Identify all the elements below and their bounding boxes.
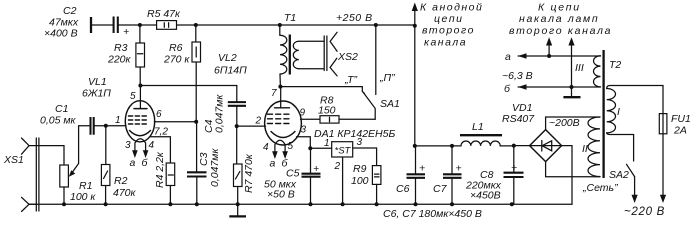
connector XS1 bbox=[22, 138, 39, 212]
node: DA1 pin2 ground bbox=[341, 202, 345, 206]
svg-text:I: I bbox=[617, 106, 620, 118]
svg-text:C6, C7 180мк×450 В: C6, C7 180мк×450 В bbox=[383, 208, 482, 220]
svg-text:2: 2 bbox=[255, 116, 262, 127]
wire: SA1 T-contact from anode node bbox=[280, 87, 364, 94]
capacitor C1 bbox=[91, 117, 94, 135]
transformer T1 core bbox=[289, 35, 291, 75]
transformer T2 winding III bbox=[594, 56, 601, 87]
svg-text:C1: C1 bbox=[55, 103, 68, 115]
transformer T2 core bbox=[602, 50, 604, 178]
wire: +250V top rail bbox=[92, 24, 415, 26]
arrow: filament a to 2nd channel bbox=[546, 37, 552, 56]
svg-text:FU1: FU1 bbox=[671, 113, 691, 125]
capacitor C8 bbox=[504, 146, 524, 205]
tube VL2 envelope bbox=[265, 101, 302, 145]
wire: filament line a bbox=[518, 55, 600, 57]
svg-text:C7: C7 bbox=[433, 183, 448, 195]
switch SA1 blade bbox=[364, 93, 376, 120]
tube VL2 heater bbox=[275, 140, 285, 152]
resistor R6 bbox=[192, 25, 201, 122]
node: T1 junction on rail bbox=[278, 23, 282, 27]
tube VL1 heater bbox=[135, 139, 146, 151]
svg-text:II: II bbox=[582, 143, 588, 155]
svg-text:9: 9 bbox=[300, 108, 306, 119]
svg-text:XS1: XS1 bbox=[3, 154, 24, 166]
svg-text:Т1: Т1 bbox=[284, 12, 296, 24]
inductor L1 bbox=[460, 135, 514, 146]
svg-text:7,2: 7,2 bbox=[154, 127, 168, 138]
transformer T1 secondary bbox=[293, 41, 324, 69]
arrow: filament b to 2nd channel bbox=[568, 37, 574, 87]
node: C6 ground bbox=[414, 202, 418, 206]
capacitor C7 bbox=[443, 146, 462, 204]
arrow: to anode circuit of 2nd channel bbox=[412, 3, 418, 26]
svg-text:+: + bbox=[456, 163, 462, 175]
svg-text:6П14П: 6П14П bbox=[214, 65, 247, 77]
svg-text:SA1: SA1 bbox=[380, 98, 400, 110]
node: R2 ground bbox=[104, 202, 108, 206]
svg-text:5: 5 bbox=[288, 141, 294, 152]
svg-text:3: 3 bbox=[125, 140, 131, 151]
ground symbol on filament b bbox=[563, 87, 580, 97]
svg-text:R6: R6 bbox=[169, 42, 183, 54]
svg-text:R2: R2 bbox=[114, 175, 128, 187]
node: C3 ground bbox=[195, 202, 199, 206]
wire: FU1 to mains bbox=[660, 134, 666, 203]
svg-text:+: + bbox=[313, 163, 319, 175]
svg-text:а: а bbox=[130, 157, 136, 169]
node: C7 top bbox=[450, 144, 454, 148]
svg-text:второго канала: второго канала bbox=[509, 25, 612, 37]
resistor R2 bbox=[101, 126, 110, 205]
capacitor C6 bbox=[407, 146, 426, 204]
capacitor C2 bbox=[114, 17, 130, 39]
svg-text:270 к: 270 к bbox=[163, 54, 190, 66]
wire: bridge minus to ground rail bbox=[562, 146, 572, 205]
svg-text:канала: канала bbox=[424, 37, 467, 49]
svg-text:SA2: SA2 bbox=[609, 169, 629, 181]
wire: winding I top to FU1 bbox=[607, 86, 663, 114]
svg-text:×450В: ×450В bbox=[470, 190, 501, 202]
svg-text:3: 3 bbox=[357, 137, 363, 148]
wire: VL1 cathode pin 7,2 to R4 bbox=[150, 137, 170, 163]
node: R7 ground with chassis symbol bbox=[236, 202, 240, 206]
node: b-line junction bbox=[570, 85, 574, 89]
node: C8 top bbox=[512, 144, 516, 148]
svg-text:„Сеть”: „Сеть” bbox=[582, 182, 618, 194]
svg-text:4: 4 bbox=[263, 142, 269, 153]
capacitor C4 bbox=[228, 86, 246, 127]
node: filter output junction bbox=[413, 144, 417, 148]
wire: node A down to C3 bbox=[196, 122, 198, 172]
svg-text:100 к: 100 к bbox=[70, 191, 96, 203]
wire: bridge AC1 to winding II top bbox=[546, 117, 600, 130]
svg-text:470к: 470к bbox=[113, 187, 137, 199]
wire: DA1 pin 3 to R9 bbox=[353, 148, 377, 166]
wire: to DA1 pin 1 bbox=[310, 147, 331, 149]
node: input terminal bar of C2 bbox=[90, 17, 92, 33]
node: R1 ground bbox=[62, 202, 66, 206]
node: junction R5/R6 on rail bbox=[194, 23, 198, 27]
svg-text:R4 2,2к: R4 2,2к bbox=[154, 151, 166, 188]
capacitor C5 bbox=[302, 148, 321, 204]
node A: screen junction bbox=[194, 120, 198, 124]
wire: VL1 anode to C4 bbox=[140, 86, 236, 109]
svg-text:Т2: Т2 bbox=[609, 59, 621, 71]
wire: VL2 cathode pin3 to DA1 bbox=[297, 137, 311, 148]
svg-text:+250 В: +250 В bbox=[336, 12, 373, 24]
svg-text:накала ламп: накала ламп bbox=[519, 13, 599, 25]
svg-text:220к: 220к bbox=[107, 54, 132, 66]
wire: XS1 to R1 top bbox=[29, 146, 64, 165]
transformer T2 winding I bbox=[607, 89, 616, 133]
tube VL2 cathode bbox=[271, 132, 295, 138]
node: C5 ground bbox=[309, 202, 313, 206]
svg-text:R9: R9 bbox=[353, 163, 367, 175]
wire: VL2 screen pin9 to R8 bbox=[301, 118, 321, 120]
svg-text:+: + bbox=[419, 163, 425, 175]
svg-text:~200В: ~200В bbox=[549, 117, 580, 129]
svg-text:2: 2 bbox=[334, 161, 341, 172]
svg-text:RS407: RS407 bbox=[502, 113, 535, 125]
wire: DA1 pin 2 to ground rail bbox=[342, 157, 344, 204]
node: C7 ground bbox=[450, 202, 454, 206]
svg-text:*ST: *ST bbox=[335, 146, 352, 157]
resistor R9 bbox=[372, 166, 381, 205]
svg-text:5: 5 bbox=[130, 91, 136, 102]
tube VL1 cathode bbox=[130, 131, 151, 136]
connector XS2 bbox=[324, 32, 337, 76]
svg-text:+: + bbox=[123, 26, 129, 38]
node: R9 ground bbox=[375, 202, 379, 206]
tube VL2 anode bbox=[275, 107, 290, 109]
label C4 value (rotated) bbox=[203, 94, 226, 133]
svg-text:0,05 мк: 0,05 мк bbox=[40, 115, 77, 127]
node: junction C2/R3 on rail bbox=[138, 23, 142, 27]
svg-text:0,047мк: 0,047мк bbox=[209, 148, 221, 187]
node: C8 ground bbox=[510, 202, 514, 206]
tube VL1 grids bbox=[129, 116, 147, 124]
wire: SA2 to mains bbox=[632, 177, 638, 203]
wire: VL2 anode lead to node bbox=[280, 87, 282, 108]
svg-text:а: а bbox=[505, 51, 511, 63]
node B: VL2 grid junction bbox=[235, 124, 239, 128]
transformer T1 primary bbox=[280, 25, 287, 87]
wire: filament line b bbox=[518, 86, 600, 88]
wire: filter line to L1 bbox=[415, 145, 461, 147]
svg-text:4: 4 bbox=[149, 140, 155, 151]
wire: C4 to VL2 grid bbox=[237, 125, 266, 127]
svg-text:„П”: „П” bbox=[379, 72, 395, 84]
svg-text:а: а bbox=[270, 158, 276, 170]
node: R4 ground bbox=[168, 202, 172, 206]
node: junction C1/R2 bbox=[104, 124, 108, 128]
label: K anodnoy tsepi bbox=[420, 2, 483, 49]
svg-text:6: 6 bbox=[156, 109, 162, 120]
regulator DA1 bbox=[332, 142, 353, 157]
svg-text:~6,3 В: ~6,3 В bbox=[502, 70, 533, 82]
wire: C1 to VL1 grid bbox=[95, 125, 127, 127]
node: a-line junction bbox=[547, 54, 551, 58]
svg-text:150: 150 bbox=[318, 105, 336, 117]
resistor R5 bbox=[157, 21, 177, 30]
wire: bridge AC2 to winding II bottom bbox=[546, 162, 600, 177]
wire: VL1 screen pin6 to node A bbox=[154, 121, 196, 123]
tube VL1 envelope bbox=[125, 101, 154, 142]
svg-text:+: + bbox=[511, 162, 517, 174]
switch SA2 blade bbox=[627, 164, 635, 176]
node: VL1 anode / C4 tap bbox=[138, 84, 142, 88]
ground symbol bbox=[229, 204, 246, 216]
svg-text:К анодной: К анодной bbox=[420, 2, 483, 14]
svg-text:C2: C2 bbox=[63, 5, 77, 17]
wire: ground bottom rail bbox=[29, 203, 572, 205]
svg-text:1: 1 bbox=[115, 115, 121, 126]
svg-text:R3: R3 bbox=[114, 42, 128, 54]
svg-text:×50 В: ×50 В bbox=[267, 189, 295, 201]
svg-text:К цепи: К цепи bbox=[538, 2, 581, 14]
resistor R3 bbox=[136, 25, 145, 86]
switch SA1 P-contact from rail bbox=[375, 25, 377, 95]
svg-text:~220 В: ~220 В bbox=[624, 206, 665, 218]
wire: C1 left to R1 wiper bbox=[79, 125, 90, 127]
svg-text:VL2: VL2 bbox=[218, 52, 237, 64]
node: cathode junction bbox=[308, 146, 312, 150]
svg-text:„Т”: „Т” bbox=[344, 74, 358, 86]
svg-text:6Ж1П: 6Ж1П bbox=[82, 88, 111, 100]
svg-text:R7 470к: R7 470к bbox=[243, 153, 255, 193]
node: VL2 anode / T1 / SA1-T bbox=[278, 85, 282, 89]
transformer T2 winding II bbox=[588, 117, 600, 177]
svg-text:C6: C6 bbox=[396, 183, 410, 195]
svg-text:цепи: цепи bbox=[434, 13, 463, 25]
svg-text:VL1: VL1 bbox=[88, 76, 107, 88]
svg-text:100: 100 bbox=[351, 175, 369, 187]
capacitor C3 bbox=[187, 172, 207, 176]
wire: winding I bottom to SA2 bbox=[607, 133, 634, 161]
svg-text:L1: L1 bbox=[472, 121, 484, 133]
resistor R8 bbox=[320, 116, 375, 123]
label: K tsepi nakala bbox=[509, 2, 612, 38]
potentiometer R1 bbox=[60, 126, 79, 205]
wire: C3 to ground rail bbox=[196, 178, 198, 205]
resistor R4 bbox=[166, 163, 175, 204]
svg-text:1: 1 bbox=[324, 138, 330, 149]
label C3 value (rotated) bbox=[198, 148, 221, 187]
wire: C8 to bridge bbox=[514, 145, 530, 147]
svg-text:7: 7 bbox=[271, 88, 277, 99]
rectifier bridge VD1 bbox=[530, 130, 562, 162]
svg-text:R5 47к: R5 47к bbox=[147, 8, 181, 20]
svg-text:III: III bbox=[575, 62, 584, 74]
svg-text:2А: 2А bbox=[673, 125, 687, 137]
heater arrows a b of VL2 bbox=[272, 151, 288, 159]
node: rail end junction bbox=[413, 24, 417, 28]
resistor R7 bbox=[234, 126, 243, 204]
heater arrows a b of VL1 bbox=[132, 150, 148, 158]
tube VL2 grids bbox=[268, 114, 289, 123]
fuse FU1 bbox=[659, 114, 667, 134]
wire: XS1 bottom to ground rail bbox=[29, 203, 36, 205]
wire: +250 feed vertical bbox=[414, 26, 416, 146]
svg-text:0,047мк: 0,047мк bbox=[214, 94, 226, 133]
svg-text:XS2: XS2 bbox=[337, 51, 358, 63]
tube VL1 anode bbox=[134, 108, 147, 110]
svg-text:3: 3 bbox=[301, 125, 307, 136]
svg-text:второго: второго bbox=[422, 25, 475, 37]
svg-text:×400 В: ×400 В bbox=[44, 28, 78, 40]
